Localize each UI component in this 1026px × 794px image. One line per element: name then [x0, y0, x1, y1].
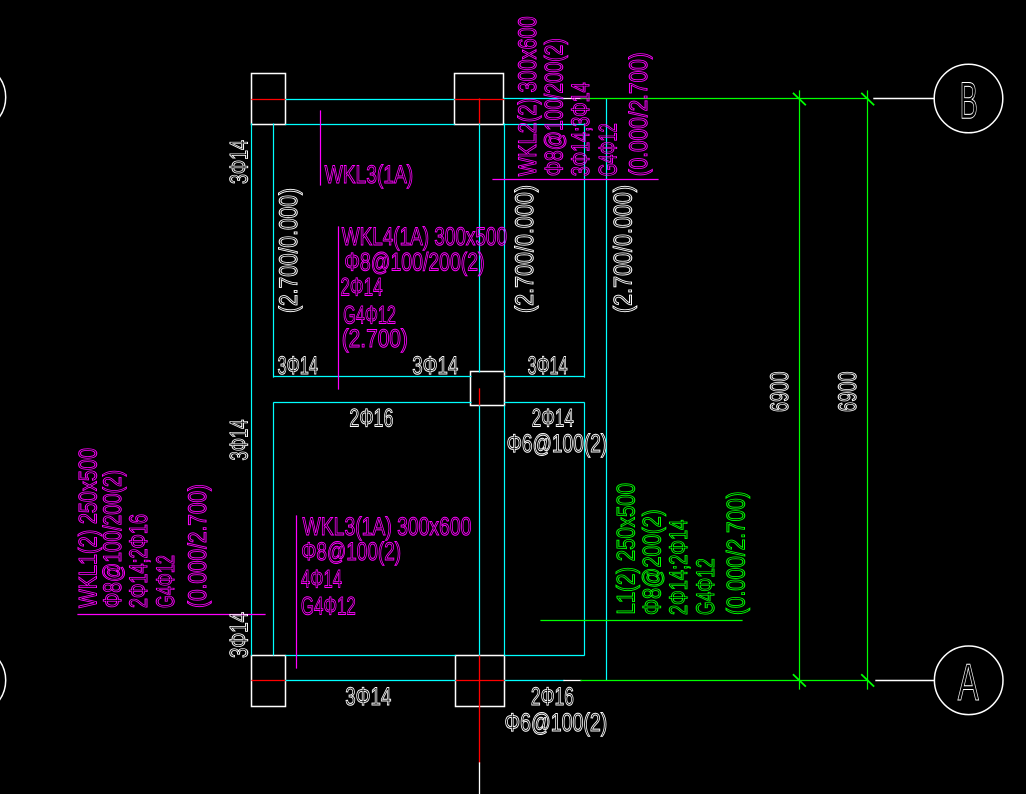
svg-text:G4Φ12: G4Φ12 [301, 593, 356, 621]
svg-text:6900: 6900 [766, 372, 794, 413]
svg-text:G4Φ12: G4Φ12 [595, 123, 623, 176]
beam line y655 right span [505, 655, 584, 657]
svg-text:3Φ14: 3Φ14 [528, 352, 568, 380]
column C3 center [471, 372, 505, 406]
svg-text:4Φ14: 4Φ14 [301, 565, 342, 593]
svg-text:2Φ14;2Φ16: 2Φ14;2Φ16 [125, 514, 153, 608]
axis B leader [874, 98, 934, 100]
beam edge vertical x480 lower [479, 406, 481, 655]
column C4 bottom-left [252, 656, 286, 707]
left partial bubble top [0, 63, 6, 132]
leader WKL3 bottom [296, 516, 298, 668]
red axis line in C4 [252, 680, 286, 682]
leader WKL3 top [320, 111, 322, 185]
beam line y124 right span [504, 124, 584, 126]
beam edge vertical x584 upper [584, 124, 586, 377]
svg-text:(2.700/0.000): (2.700/0.000) [610, 185, 638, 313]
svg-text:(0.000/2.700): (0.000/2.700) [625, 52, 653, 176]
dimension vertical x799 [799, 91, 801, 689]
svg-text:(0.000/2.700): (0.000/2.700) [184, 484, 212, 608]
dimension line top [581, 98, 868, 100]
tick mark bottom-left [794, 675, 806, 686]
svg-text:Φ6@100(2): Φ6@100(2) [507, 430, 608, 458]
tick mark bottom-right [862, 675, 874, 686]
tick mark top-right [862, 94, 874, 105]
beam edge vertical x584 lower [584, 403, 586, 655]
red axis line in C1 [252, 99, 285, 101]
mid beam line y403 left span [274, 402, 471, 404]
svg-text:Φ8@100/200(2): Φ8@100/200(2) [541, 38, 569, 176]
red axis stub in C3 [479, 389, 481, 406]
beam edge vertical x505 lower [504, 406, 506, 655]
svg-text:3Φ14: 3Φ14 [226, 612, 254, 658]
svg-text:G4Φ12: G4Φ12 [152, 555, 180, 608]
leader line L1 [541, 620, 742, 622]
red axis stub in C2 [479, 99, 481, 124]
svg-text:2Φ16: 2Φ16 [349, 405, 393, 433]
beam bottom line y680 left span [286, 680, 455, 682]
svg-text:(2.700/0.000): (2.700/0.000) [275, 188, 303, 313]
column C2 top-middle [455, 74, 504, 125]
svg-text:(2.700): (2.700) [342, 325, 408, 353]
svg-text:A: A [958, 654, 979, 712]
tick mark top-left [794, 94, 806, 105]
leader line WKL2 [493, 179, 658, 181]
svg-text:Φ6@100(2): Φ6@100(2) [505, 709, 608, 737]
beam line y124 left span [286, 124, 454, 126]
white axis tail below red [479, 763, 481, 794]
leader WKL4 [338, 227, 340, 389]
mid beam line y403 right span [505, 402, 584, 404]
axis bubble B [934, 64, 1003, 133]
beam top line y99 left span [286, 99, 454, 101]
svg-text:2Φ14: 2Φ14 [532, 405, 574, 433]
beam line y655 left span [286, 655, 455, 657]
svg-text:3Φ14: 3Φ14 [278, 352, 319, 380]
svg-text:2Φ14;2Φ14: 2Φ14;2Φ14 [665, 520, 693, 615]
mid beam line y377 left span [274, 376, 471, 378]
svg-text:(0.000/2.700): (0.000/2.700) [723, 491, 751, 615]
svg-text:3Φ14: 3Φ14 [412, 352, 458, 380]
dimension vertical x868 [867, 91, 869, 689]
beam edge vertical x505 upper [504, 124, 506, 372]
beam top line y99 right span [504, 98, 564, 100]
svg-text:3Φ14: 3Φ14 [226, 420, 254, 461]
dimension line bottom [581, 680, 868, 682]
svg-text:WKL4(1A) 300x500: WKL4(1A) 300x500 [342, 223, 507, 251]
axis A leader [876, 680, 934, 682]
beam bottom line y680 right span [505, 680, 564, 682]
beam edge vertical x251 [251, 124, 253, 655]
svg-text:WKL3(1A): WKL3(1A) [325, 161, 414, 189]
svg-text:WKL2(2) 300x600: WKL2(2) 300x600 [514, 16, 542, 176]
svg-text:3Φ14: 3Φ14 [345, 683, 391, 711]
svg-text:Φ8@100/200(2): Φ8@100/200(2) [99, 470, 127, 608]
mid beam line y377 right span [505, 376, 584, 378]
column C1 top-left [252, 74, 286, 125]
svg-text:WKL3(1A) 300x600: WKL3(1A) 300x600 [303, 513, 472, 541]
beam edge vertical x273 upper [273, 124, 275, 377]
left partial bubble bottom [0, 646, 6, 715]
svg-text:2Φ16: 2Φ16 [531, 683, 574, 711]
beam edge vertical x480 upper [479, 124, 481, 372]
white dim stub top [564, 98, 581, 100]
white dim stub bottom [564, 680, 581, 682]
svg-text:6900: 6900 [834, 372, 862, 413]
axis bubble A [934, 646, 1003, 715]
red axis line below C5 [479, 655, 481, 763]
svg-text:Φ8@200(2): Φ8@200(2) [639, 510, 667, 616]
svg-text:B: B [960, 72, 978, 130]
svg-text:Φ8@100/200(2): Φ8@100/200(2) [344, 248, 484, 276]
svg-text:Φ8@100(2): Φ8@100(2) [301, 538, 401, 566]
svg-text:G4Φ12: G4Φ12 [692, 558, 720, 615]
red axis line in C5 [455, 680, 505, 682]
svg-text:2Φ14: 2Φ14 [340, 274, 382, 302]
svg-text:(2.700/0.000): (2.700/0.000) [511, 185, 539, 313]
column C5 bottom-middle [456, 656, 505, 707]
svg-text:L1(2) 250x500: L1(2) 250x500 [613, 483, 641, 615]
beam edge vertical x607 [606, 99, 608, 680]
red axis line in C2 [454, 99, 504, 101]
svg-text:3Φ14;3Φ14: 3Φ14;3Φ14 [567, 82, 595, 176]
beam edge vertical x273 lower [273, 403, 275, 655]
svg-text:3Φ14: 3Φ14 [226, 140, 254, 184]
leader line WKL1 [78, 614, 265, 616]
